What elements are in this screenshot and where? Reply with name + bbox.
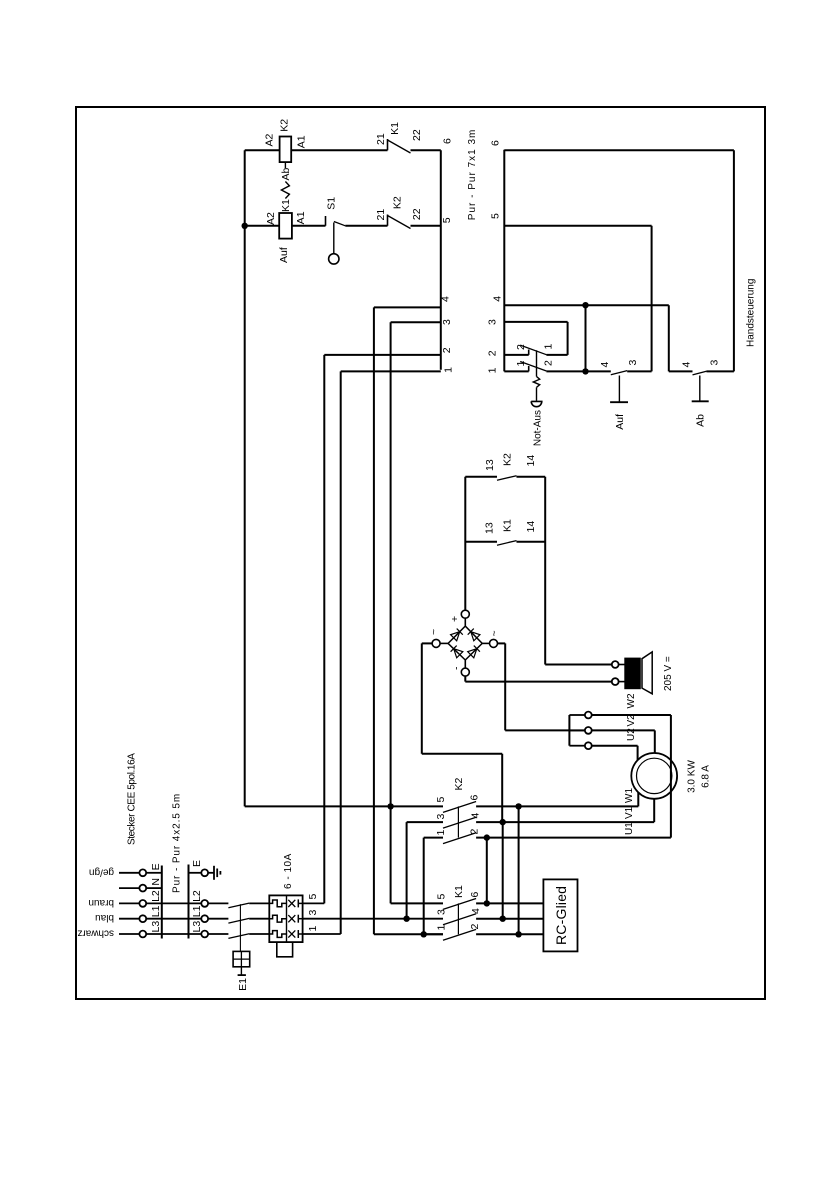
svg-text:ge/gn: ge/gn	[89, 866, 114, 877]
svg-text:6: 6	[442, 138, 454, 144]
brake cone	[642, 652, 652, 694]
wire K1 pole 6 out	[476, 902, 543, 904]
svg-text:A2: A2	[265, 212, 277, 225]
node K1 2 crosslink	[515, 931, 521, 937]
rectifier AC terminal top	[432, 639, 440, 647]
terminal W2 circle	[585, 712, 592, 719]
NC contact K2 21-22 tick	[387, 215, 389, 226]
thermal overload element	[269, 931, 286, 938]
wire Ab lower	[706, 370, 734, 372]
motor M inner circle	[637, 758, 672, 793]
node wire4 link	[582, 302, 588, 308]
border frame	[76, 107, 765, 999]
rectifier diode D4	[468, 649, 477, 658]
svg-text:3.0 KW: 3.0 KW	[687, 760, 698, 793]
wire plug pin lead	[119, 872, 139, 874]
rectifier bridge diamond	[448, 626, 482, 660]
svg-text:3: 3	[627, 360, 639, 366]
plug pin contact circle	[139, 900, 146, 907]
wire branch to K2 pole 1	[423, 838, 425, 935]
svg-text:N: N	[150, 878, 162, 886]
svg-text:Ab: Ab	[280, 167, 292, 180]
brake terminal circles	[612, 678, 619, 685]
connector terminal circle	[201, 931, 208, 938]
svg-text:A2: A2	[264, 133, 276, 146]
Auf actuator bar	[610, 401, 628, 403]
svg-text:4: 4	[681, 362, 693, 368]
wire 5 pendant	[504, 225, 651, 227]
svg-text:U2: U2	[626, 728, 637, 741]
wire connector to breaker	[208, 933, 228, 935]
svg-text:S1: S1	[326, 197, 338, 210]
svg-text:W2: W2	[626, 693, 637, 708]
wire N stub	[146, 887, 162, 889]
svg-text:4: 4	[599, 362, 611, 368]
svg-text:3: 3	[441, 319, 453, 325]
connector terminal circle	[201, 915, 208, 922]
wire K2 pole 4 out	[476, 821, 654, 823]
wire common link	[585, 305, 587, 371]
aux contact K1 13-14 upper	[465, 541, 497, 543]
magnetic trip element	[288, 930, 295, 937]
node K1 6 crosslink	[484, 900, 490, 906]
wire cable core	[146, 902, 201, 904]
svg-text:21: 21	[375, 209, 387, 221]
svg-text:K2: K2	[453, 777, 465, 790]
contactor K2 linkage	[457, 806, 459, 837]
wire K1 pole 2 out	[476, 933, 543, 935]
wire pendant Auf rail	[651, 226, 653, 372]
wire K1 pole 4 out	[476, 918, 543, 920]
node control 3 to K contact feed	[387, 803, 393, 809]
wire control 4 down branch	[374, 933, 443, 935]
wire V2 down	[592, 729, 655, 731]
svg-text:L3: L3	[191, 921, 203, 933]
wire U1 W2 link	[670, 715, 672, 838]
rectifier minus terminal	[461, 668, 469, 676]
wire E stub connector side	[189, 872, 202, 874]
wire V1 stub	[653, 799, 655, 822]
svg-text:E: E	[191, 860, 203, 867]
wire K2 pole 5 out	[476, 805, 638, 807]
svg-text:1: 1	[435, 830, 447, 836]
wire blade to breaker box	[249, 902, 269, 904]
wire trip to box edge	[298, 933, 302, 935]
thermal overload element	[269, 915, 286, 922]
thermal overload element	[269, 900, 286, 907]
svg-text:braun: braun	[88, 897, 114, 908]
svg-text:V2: V2	[626, 714, 637, 727]
svg-text:Handsteuerung: Handsteuerung	[746, 279, 757, 347]
wire blade to breaker box	[249, 918, 269, 920]
pushbutton Auf blade	[611, 371, 627, 375]
svg-text:4: 4	[470, 908, 482, 914]
svg-text:22: 22	[411, 208, 423, 220]
wire control 2 from breaker output 5	[303, 902, 325, 904]
rectifier AC terminal bottom	[490, 639, 498, 647]
cable sheath line plug side	[161, 866, 163, 939]
node K2 6 crosslink	[515, 803, 521, 809]
wire connector to breaker	[208, 902, 228, 904]
svg-text:3: 3	[487, 319, 499, 325]
wire 2 pendant	[504, 354, 528, 356]
svg-text:4: 4	[470, 813, 482, 819]
mechanical latch link between coils	[284, 162, 286, 168]
svg-text:2: 2	[515, 344, 527, 350]
svg-text:K1: K1	[280, 199, 292, 212]
aux contact K1 13-14 blade	[497, 541, 517, 546]
svg-text:RC-Glied: RC-Glied	[553, 886, 569, 945]
wire connector to breaker	[208, 918, 228, 920]
wire E stub	[146, 872, 162, 874]
main contact K2 3-4 blade	[443, 817, 476, 828]
star point bracket	[568, 715, 570, 746]
svg-text:1: 1	[543, 344, 555, 350]
wire AC bottom to star point	[498, 642, 506, 644]
wire K1 coil A2 pin	[245, 225, 280, 227]
svg-text:6.8 A: 6.8 A	[701, 765, 712, 788]
plug pin contact circle	[139, 885, 146, 892]
svg-text:21: 21	[375, 133, 387, 145]
svg-text:U1: U1	[624, 822, 635, 835]
svg-text:L1: L1	[150, 905, 162, 917]
svg-text:K1: K1	[502, 519, 514, 532]
svg-text:205 V =: 205 V =	[663, 656, 674, 691]
wire Ab upper	[669, 370, 693, 372]
wire control supply rail	[244, 150, 246, 806]
svg-text:3: 3	[435, 814, 447, 820]
svg-text:6: 6	[490, 140, 502, 146]
svg-text:3: 3	[307, 910, 319, 916]
wire W1 stub	[637, 792, 639, 806]
node K1 4 crosslink	[500, 916, 506, 922]
cable sheath line panel side	[440, 150, 442, 369]
wire blade to breaker box	[249, 933, 269, 935]
magnetic trip element	[288, 915, 295, 922]
breaker contact blade	[228, 918, 249, 923]
aux contact K2 13-14 blade	[497, 476, 517, 481]
plug pin contact circle	[139, 869, 146, 876]
NC contact K2 21-22 blade	[388, 216, 411, 229]
Not-Aus mushroom head	[531, 401, 542, 406]
svg-text:5: 5	[441, 217, 453, 223]
wire brake rail	[544, 477, 546, 665]
wire plug pin lead	[119, 887, 139, 889]
wire Not-Aus pole1 out	[567, 322, 569, 355]
svg-text:schwarz: schwarz	[77, 928, 114, 939]
svg-text:1: 1	[436, 925, 448, 931]
svg-text:1: 1	[515, 361, 527, 367]
svg-text:L1: L1	[191, 905, 203, 917]
svg-text:5: 5	[435, 797, 447, 803]
breaker contact blade	[228, 934, 249, 939]
wire K1 coil A1 to switch S1	[292, 225, 326, 227]
wire Auf upper	[586, 370, 611, 372]
svg-text:+: +	[449, 616, 461, 622]
svg-text:2: 2	[543, 360, 555, 366]
breaker trip linkage	[239, 904, 241, 951]
wire S1 to K2 NC contact	[345, 225, 387, 227]
rectifier diode D1	[451, 632, 460, 641]
NC contact K1 21-22 blade	[388, 140, 411, 153]
crosslink wire K1-2 to K2-6	[518, 806, 520, 934]
svg-text:K2: K2	[502, 453, 514, 466]
node K2 2 crosslink	[484, 834, 490, 840]
E1 handle bar	[238, 974, 246, 976]
wire plug pin lead	[119, 918, 139, 920]
svg-text:13: 13	[484, 459, 496, 471]
node branch to K2 pole 1	[421, 931, 427, 937]
wire Not-Aus pole2 lower	[546, 370, 585, 372]
connector terminal circle	[201, 869, 208, 876]
wire control 3	[390, 322, 392, 903]
svg-text:5: 5	[436, 894, 448, 900]
switch S1 actuator link	[333, 223, 335, 254]
svg-text:4: 4	[440, 296, 452, 302]
aux contact K1 13-14 lower	[517, 541, 546, 543]
main contact K1 3-4 blade	[443, 914, 476, 925]
rectifier diode D3	[454, 649, 463, 658]
wire control 3 to K1 pole 5	[391, 902, 443, 904]
main contact K2 1-2 blade	[443, 833, 476, 844]
wire control 1 drop to cable	[341, 370, 441, 372]
svg-text:2: 2	[487, 350, 499, 356]
wire control 4	[373, 307, 375, 934]
wire plug pin lead	[119, 902, 139, 904]
emergency stop Not-Aus pole2 tick	[528, 366, 530, 371]
svg-text:Not-Aus: Not-Aus	[533, 410, 544, 446]
contactor K1 linkage	[457, 903, 459, 934]
svg-text:V1: V1	[624, 806, 635, 819]
switch S1 blade	[334, 222, 345, 226]
motor M outer circle	[631, 753, 677, 799]
wire minus to brake	[464, 676, 466, 682]
wire control 1 from breaker output 1	[303, 933, 341, 935]
aux contact K2 13-14 upper	[465, 476, 497, 478]
wire brake feed	[545, 664, 612, 666]
rectifier diode D2	[471, 632, 480, 641]
svg-text:Ab: Ab	[695, 414, 707, 427]
svg-text:14: 14	[525, 455, 537, 467]
wire E1 square to handle	[240, 967, 242, 975]
wire cable core	[146, 918, 201, 920]
wire K2 NC to terminal 5	[411, 225, 441, 227]
node K2 4 crosslink	[500, 819, 506, 825]
svg-text:E1: E1	[237, 978, 249, 991]
Not-Aus actuator link with spring	[536, 350, 538, 376]
cable sheath line panel connector side	[188, 865, 190, 939]
svg-text:5: 5	[490, 213, 502, 219]
RC suppressor box	[543, 879, 577, 951]
wire 4 pendant	[504, 304, 669, 306]
wire trip to box edge	[298, 918, 302, 920]
emergency stop Not-Aus pole1 blade	[520, 345, 546, 355]
svg-text:22: 22	[411, 129, 423, 141]
wire control 3 drop to cable	[391, 321, 441, 323]
main contact K1 1-2 blade	[443, 929, 476, 940]
Auf actuator link	[618, 376, 620, 403]
wire 3 pendant	[504, 321, 567, 323]
wire cable core	[146, 933, 201, 935]
crosslink wire K1-6 to K2-2	[486, 838, 488, 904]
node common link	[582, 368, 588, 374]
svg-text:L3: L3	[150, 921, 162, 933]
wire rectifier plus rail	[464, 477, 466, 611]
wire W2 down	[592, 714, 671, 716]
main contact K1 5-6 blade	[443, 899, 476, 910]
pushbutton Ab blade	[693, 371, 707, 375]
svg-text:6: 6	[469, 795, 481, 801]
wire AC top to motor link	[422, 642, 432, 644]
plug pin contact circle	[139, 915, 146, 922]
rectifier plus terminal	[461, 610, 469, 618]
crosslink wire K1-4 to K2-4	[502, 822, 504, 919]
wire breaker output 3 to K1	[303, 918, 443, 920]
wire V2 to motor	[654, 730, 656, 753]
svg-text:E: E	[150, 863, 162, 870]
ground symbol	[213, 866, 215, 880]
wire K2 pole 1 in	[424, 837, 443, 839]
main contact K2 5-6 blade	[443, 802, 476, 813]
svg-text:2: 2	[469, 924, 481, 930]
node rail to K1 coil	[242, 223, 248, 229]
terminal U2 circle	[585, 742, 592, 749]
terminal V2 circle	[585, 727, 592, 734]
svg-text:K1: K1	[453, 885, 465, 898]
svg-text:~: ~	[428, 629, 440, 635]
svg-text:3: 3	[436, 909, 448, 915]
svg-text:1: 1	[443, 367, 455, 373]
wire U2 to motor	[637, 746, 639, 760]
wire K2 coil A2 pin	[245, 149, 280, 151]
wire K1 pole 1 in	[424, 933, 443, 935]
magnetic trip element	[288, 900, 295, 907]
connector terminal circle	[201, 900, 208, 907]
svg-text:W1: W1	[624, 788, 635, 803]
svg-text:blau: blau	[95, 912, 114, 923]
svg-text:-: -	[451, 666, 463, 670]
svg-text:Auf: Auf	[278, 247, 290, 263]
breaker operator E1 square	[233, 951, 250, 966]
wire K2 pole 2 out	[476, 837, 671, 839]
node output 3 branch	[403, 916, 409, 922]
wire earth stub	[208, 872, 214, 874]
contactor coil K1	[279, 213, 292, 239]
wire control 4 drop to cable	[374, 306, 441, 308]
wire 1 pendant	[504, 370, 528, 372]
wire trip to box edge	[298, 902, 302, 904]
svg-text:A1: A1	[296, 135, 308, 148]
svg-text:~: ~	[489, 630, 501, 636]
svg-text:L2: L2	[150, 890, 162, 902]
svg-text:4: 4	[492, 296, 504, 302]
emergency stop Not-Aus pole1 tick	[528, 350, 530, 355]
svg-text:2: 2	[441, 347, 453, 353]
NC contact K1 21-22 tick	[387, 139, 389, 150]
wire K2 coil A1 to K1 NC contact	[291, 149, 387, 151]
aux contact K2 13-14 lower	[517, 476, 546, 478]
svg-text:Pur - Pur 4x2.5 5m: Pur - Pur 4x2.5 5m	[172, 793, 183, 893]
wire pendant Ab rail	[668, 305, 670, 371]
svg-text:Stecker CEE 5pol.16A: Stecker CEE 5pol.16A	[127, 753, 138, 845]
wire U2 down	[592, 745, 638, 747]
switch S1 fixed contact tick	[325, 216, 327, 226]
emergency stop Not-Aus pole2 blade	[520, 362, 546, 372]
cable sheath line pendant side	[503, 150, 505, 372]
svg-text:A1: A1	[295, 211, 307, 224]
breaker box divider	[286, 895, 288, 942]
brake coil block	[625, 658, 641, 689]
svg-text:5: 5	[307, 894, 319, 900]
contactor coil K2	[280, 137, 292, 163]
svg-text:3: 3	[709, 360, 721, 366]
wire control 2 drop to cable	[324, 354, 441, 356]
svg-text:14: 14	[525, 521, 537, 533]
svg-text:13: 13	[483, 522, 495, 534]
svg-text:K2: K2	[391, 196, 403, 209]
breaker contact blade	[228, 903, 249, 908]
wire plug pin lead	[119, 933, 139, 935]
svg-text:1: 1	[307, 926, 319, 932]
svg-text:L2: L2	[191, 890, 203, 902]
wire rail corner to K2 pole 5	[245, 805, 443, 807]
wire K1 NC to terminal 6	[411, 149, 441, 151]
Ab actuator bar	[692, 400, 709, 402]
svg-text:Auf: Auf	[614, 414, 626, 430]
plug pin contact circle	[139, 931, 146, 938]
svg-text:K1: K1	[389, 122, 401, 135]
Ab actuator link	[699, 376, 701, 402]
svg-text:Pur - Pur 7x1 3m: Pur - Pur 7x1 3m	[467, 129, 478, 221]
breaker side jumper	[277, 942, 293, 957]
svg-text:1: 1	[487, 367, 499, 373]
wire Auf lower	[627, 370, 651, 372]
wire 6 pendant	[504, 149, 734, 151]
svg-text:K2: K2	[279, 119, 291, 132]
switch S1 actuator circle	[329, 254, 339, 264]
svg-text:2: 2	[469, 829, 481, 835]
wire Not-Aus pole1 lower	[546, 354, 567, 356]
svg-text:6 - 10A: 6 - 10A	[283, 853, 294, 889]
svg-text:6: 6	[469, 892, 481, 898]
wire branch to K2 pole 3	[406, 822, 408, 919]
wire pendant bottom rail	[733, 150, 735, 371]
wire K2 pole 3 in	[407, 821, 443, 823]
motor protection switch box	[269, 895, 302, 942]
